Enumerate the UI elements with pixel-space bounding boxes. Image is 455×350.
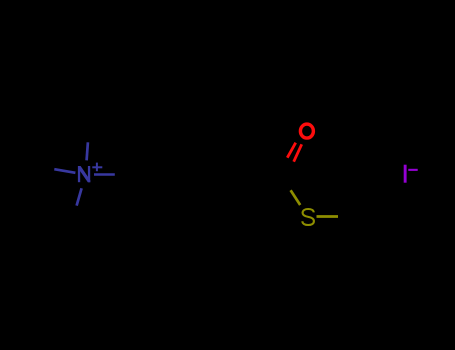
atom S letter S (302, 209, 314, 225)
double bond C=O inner line (287, 143, 295, 158)
iodide I letter (404, 165, 407, 183)
charge plus on N (92, 163, 102, 172)
iodide minus charge (408, 169, 417, 171)
bond C-S (291, 190, 301, 205)
bond N-phenyl right (94, 173, 115, 176)
atom N1 letter N (78, 166, 90, 182)
bond N-CH3 up (87, 142, 88, 160)
bond N-CH3 left (54, 169, 75, 173)
atom O letter O (300, 124, 313, 138)
double bond C=O outer line (294, 144, 302, 161)
bond N-CH3 down-left (77, 188, 82, 205)
bond S-CH3 (317, 215, 339, 218)
